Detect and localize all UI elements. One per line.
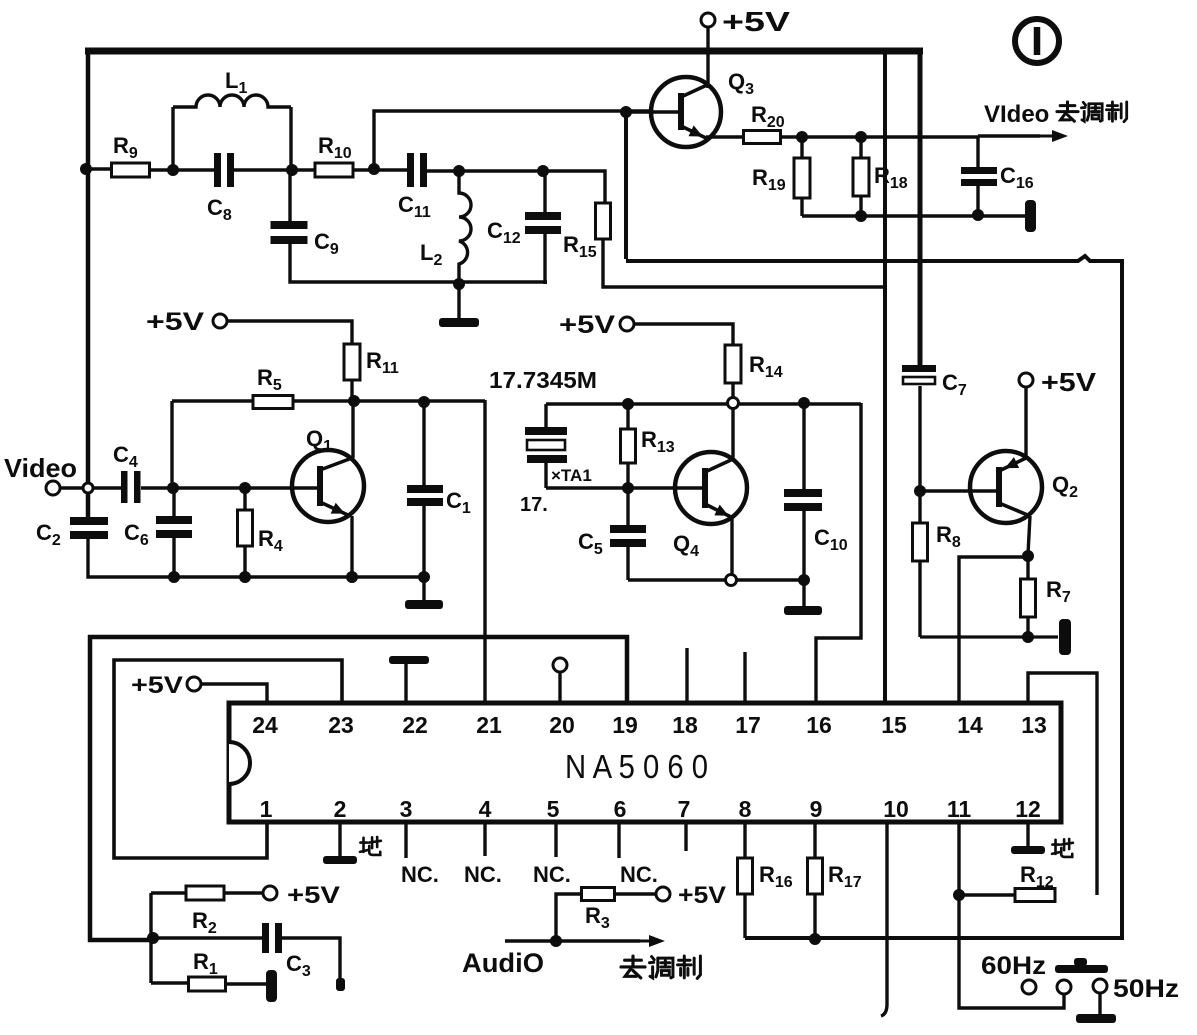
switch lever xyxy=(1055,965,1108,973)
node junction R4 top xyxy=(239,482,251,494)
svg-text:3: 3 xyxy=(400,796,413,822)
wire C11 to R15 corner xyxy=(427,171,605,204)
wire R19 lead xyxy=(800,137,803,159)
node junction frame/R1/R2/C3 xyxy=(147,932,159,944)
resistor R9 xyxy=(112,163,150,177)
circuit number marker (1) xyxy=(1015,19,1059,63)
wire C6 bottom xyxy=(172,538,175,577)
arrow video output xyxy=(1032,135,1056,138)
svg-text:VIdeo: VIdeo xyxy=(984,101,1049,128)
wire +5V to R11 xyxy=(228,321,352,345)
node Q4 emitter on rail xyxy=(726,575,737,586)
resistor R14 xyxy=(725,345,741,383)
wire pin15 long rail xyxy=(883,48,887,703)
terminal +5V R2 xyxy=(263,886,277,900)
svg-text:+5V: +5V xyxy=(1041,367,1097,397)
wire C7 to Q2 base xyxy=(918,386,921,524)
wire R4 bottom xyxy=(243,546,246,577)
wire pin23 to pin1 loop xyxy=(114,660,342,858)
svg-text:18: 18 xyxy=(672,712,698,738)
svg-text:23: 23 xyxy=(328,712,354,738)
character 去 (video out) xyxy=(1057,102,1078,121)
pin 18 stub xyxy=(685,648,688,703)
wire node rail to pin21 xyxy=(483,400,486,703)
crossover video/frame xyxy=(83,483,93,493)
node junction C6 bottom xyxy=(168,571,180,583)
wire C1 branch top xyxy=(422,402,425,486)
wire C3 left lead xyxy=(153,936,264,939)
transistor Q1 xyxy=(292,450,364,522)
svg-text:4: 4 xyxy=(479,796,492,822)
pin 22 top bar xyxy=(389,656,429,664)
wire R14 bottom xyxy=(731,383,734,398)
wire R10 to C11 xyxy=(353,168,408,171)
ground pin2 xyxy=(323,856,357,864)
terminal +5V top xyxy=(701,13,715,27)
wire pin14/pin11 rail crossing xyxy=(958,939,961,942)
wire C5 bottom xyxy=(626,547,629,580)
terminal +5V R14 xyxy=(620,317,634,331)
svg-text:17: 17 xyxy=(735,712,761,738)
node junction C12 top xyxy=(537,165,549,177)
node junction R9 left / frame xyxy=(80,163,92,175)
wire R7 bottom xyxy=(1026,617,1029,637)
terminal +5V pin24 xyxy=(187,677,201,691)
wire R1 left lead xyxy=(151,981,189,984)
wire R3 to +5V xyxy=(615,892,655,895)
pin 12 stub xyxy=(1026,822,1029,846)
svg-text:N A 5 0 6 0: N A 5 0 6 0 xyxy=(565,748,708,785)
pin 11 drop to switch xyxy=(959,822,1064,1008)
wire Q1 emitter drop xyxy=(350,516,353,577)
wire C8 to R10 xyxy=(234,168,315,171)
pin 5 stub xyxy=(554,822,557,857)
wire Q2 emitter drop xyxy=(1028,516,1030,554)
character 调 (audio out) xyxy=(650,957,673,978)
character 去 (audio out) xyxy=(621,956,645,978)
node junction R4 bottom xyxy=(239,571,251,583)
wire R11 to node xyxy=(350,380,353,401)
node junction R18 bottom xyxy=(855,210,867,222)
svg-text:+5V: +5V xyxy=(131,672,183,699)
wire Q4 collector riser xyxy=(731,408,734,458)
node junction L2 bottom xyxy=(453,278,465,290)
wire C9 to bottom rail xyxy=(290,244,547,282)
svg-text:7: 7 xyxy=(678,796,691,822)
wire +5V to Q3 collector xyxy=(706,28,709,88)
wire C10 branch xyxy=(802,403,805,490)
wire xtal bottom leg xyxy=(544,463,547,488)
crystal XTA1 xyxy=(525,427,567,435)
capacitor C8 xyxy=(214,153,221,187)
wire R17 bottom xyxy=(813,894,816,939)
resistor R2 xyxy=(186,886,224,900)
character 调 (video out) xyxy=(1081,102,1102,121)
ground under C1 xyxy=(405,600,443,609)
terminal +5V Q2 xyxy=(1019,373,1033,387)
pin 10 long stub xyxy=(881,822,887,1016)
wire Q1 collector riser xyxy=(351,402,354,458)
arrow audio output xyxy=(629,940,653,943)
ground under 50Hz xyxy=(1076,1014,1116,1023)
svg-text:NC.: NC. xyxy=(620,862,658,887)
node junction L1 left / C8 left xyxy=(167,164,179,176)
stub end blob C3 xyxy=(336,978,345,991)
node junction Q2 emitter xyxy=(1022,550,1034,562)
node junction C1 top xyxy=(418,396,430,408)
node junction C4/C6/R5 xyxy=(167,482,179,494)
wire R9 to C8 node xyxy=(149,168,215,171)
pin 13 route to R12 xyxy=(1028,673,1097,895)
wire C1 bottom xyxy=(422,506,425,600)
svg-text:5: 5 xyxy=(547,796,560,822)
wire Q3 base riser xyxy=(374,111,650,169)
svg-text:60Hz: 60Hz xyxy=(981,952,1046,980)
wire R19 bottom xyxy=(800,198,803,216)
pin 20 stub xyxy=(558,672,561,703)
wire Q3 emitter to R20 xyxy=(706,135,744,138)
inductor L2 xyxy=(459,171,471,284)
svg-text:17.: 17. xyxy=(520,494,548,516)
wire xtal node rail xyxy=(546,402,861,405)
capacitor C3 xyxy=(262,923,269,953)
wire IC section left rail xyxy=(90,635,150,940)
wire L1 right riser xyxy=(289,107,292,170)
node junction Q3 base xyxy=(620,106,632,118)
capacitor C2 xyxy=(70,517,108,525)
character 制 (audio out) xyxy=(678,956,701,978)
ground right of R7 xyxy=(1059,619,1071,655)
wire R15 bottom to pin15 rail xyxy=(603,239,884,287)
svg-text:14: 14 xyxy=(957,712,983,738)
resistor R20 xyxy=(744,131,781,144)
capacitor C12 xyxy=(525,212,561,220)
wire R16 bottom xyxy=(743,894,746,938)
node junction R19 top xyxy=(796,131,808,143)
svg-text:50Hz: 50Hz xyxy=(1113,975,1179,1003)
wire R2/R1 left riser xyxy=(149,893,152,983)
ground under L2 xyxy=(439,318,479,327)
wire Q4 base rail xyxy=(546,486,702,489)
wire 50Hz to ground xyxy=(1098,993,1101,1014)
wire R2 to +5V xyxy=(224,891,262,894)
capacitor C1 xyxy=(407,485,443,493)
pin 22 stub xyxy=(404,664,407,703)
wire C12 branch xyxy=(543,171,546,213)
inductor L1 xyxy=(173,95,291,107)
resistor R16 xyxy=(738,858,753,894)
ground right of C16 xyxy=(1025,200,1036,232)
svg-text:21: 21 xyxy=(476,712,502,738)
node junction R11 bottom xyxy=(348,395,360,407)
wire C16 branch xyxy=(976,136,979,167)
svg-text:AudiO: AudiO xyxy=(462,948,544,978)
pin 20 terminal xyxy=(553,658,567,672)
node junction C1 / gnd rail xyxy=(418,571,430,583)
pin 7 stub xyxy=(684,822,687,851)
svg-text:6: 6 xyxy=(614,796,627,822)
capacitor C16 xyxy=(961,167,997,174)
resistor R8 xyxy=(913,523,928,561)
node junction audio/R3 xyxy=(550,935,562,947)
wire R13 lead xyxy=(626,404,629,430)
resistor R13 xyxy=(621,429,636,463)
wire +5V to R14 xyxy=(635,324,733,345)
wire audio line xyxy=(505,939,640,942)
node junction Q2 base xyxy=(914,485,926,497)
wire Q4 emitter drop xyxy=(730,518,733,580)
svg-text:12: 12 xyxy=(1015,796,1041,822)
resistor R3 xyxy=(582,888,615,901)
resistor R7 xyxy=(1021,579,1036,617)
svg-text:+5V: +5V xyxy=(146,308,204,336)
wire R18 lead xyxy=(859,137,862,158)
svg-text:9: 9 xyxy=(810,796,823,822)
wire R12 left lead xyxy=(959,893,1014,896)
svg-text:+5V: +5V xyxy=(722,6,790,37)
node junction C10 top xyxy=(798,397,810,409)
wire C9 branch xyxy=(288,170,291,221)
node junction C8 right / C9 top xyxy=(286,164,298,176)
wire +5V to pin24 xyxy=(201,684,267,703)
svg-text:24: 24 xyxy=(252,712,278,738)
character 地 (pin2) xyxy=(360,837,381,855)
capacitor C11 xyxy=(407,153,414,187)
transistor Q4 xyxy=(675,452,747,524)
wire node to pin16 route xyxy=(816,403,861,703)
terminal Video input xyxy=(46,481,60,495)
svg-text:+5V: +5V xyxy=(559,311,615,339)
terminal +5V R3 xyxy=(656,887,670,901)
wire IC section top rail xyxy=(88,637,627,703)
resistor R11 xyxy=(344,344,360,380)
wire L1 left riser xyxy=(171,107,174,170)
svg-text:15: 15 xyxy=(881,712,907,738)
svg-text:19: 19 xyxy=(612,712,638,738)
pin 17 stub xyxy=(743,652,746,703)
wire R7 lead xyxy=(1026,556,1029,580)
svg-text:Video: Video xyxy=(4,453,77,483)
node junction R10 right / Q3 base branch xyxy=(368,163,380,175)
switch pole 60Hz xyxy=(1022,980,1036,994)
wire +5V to Q2 collector xyxy=(1024,388,1027,458)
svg-text:NC.: NC. xyxy=(464,862,502,887)
wire R4 lead xyxy=(243,488,246,510)
transistor Q3 xyxy=(651,77,721,147)
wire C4 to base node xyxy=(141,486,317,489)
svg-text:11: 11 xyxy=(947,796,972,822)
wire Q2 base rail xyxy=(920,489,996,492)
node junction xtal/R13/C5/base xyxy=(622,482,634,494)
pin 4 stub xyxy=(483,822,486,856)
wire C10 ground stem xyxy=(802,580,805,606)
svg-text:10: 10 xyxy=(883,796,909,822)
svg-text:17.7345M: 17.7345M xyxy=(489,367,597,393)
wire emitter to pin14 route xyxy=(959,557,1028,703)
resistor R17 xyxy=(808,858,823,894)
pin 1 already in loop / pin2 stub xyxy=(338,822,341,856)
character 地 (pin12) xyxy=(1052,839,1073,857)
node junction R13 top xyxy=(622,398,634,410)
resistor R15 xyxy=(596,203,611,239)
capacitor C7 xyxy=(902,365,936,372)
wire R8 bottom xyxy=(918,561,921,637)
node junction Q1 emitter bottom xyxy=(346,571,358,583)
wire C6 branch xyxy=(172,488,175,517)
svg-text:NC.: NC. xyxy=(401,862,439,887)
wire video out xyxy=(978,134,1040,137)
node junction C10 bottom xyxy=(798,574,810,586)
node junction R18 top xyxy=(855,131,867,143)
character 制 (video out) xyxy=(1106,102,1126,122)
svg-text:16: 16 xyxy=(806,712,832,738)
svg-text:+5V: +5V xyxy=(287,882,340,909)
wire Q3 base drop xyxy=(624,112,628,259)
wire gnd rail R19/R18/C16 xyxy=(802,214,1025,217)
resistor R4 xyxy=(238,510,253,546)
wire C3 right route xyxy=(282,938,340,982)
wire C5 branch xyxy=(626,488,629,526)
node junction R17 bottom rail xyxy=(809,933,821,945)
node junction C16 bottom xyxy=(972,209,984,221)
capacitor C9 xyxy=(271,221,308,229)
wire R3 riser xyxy=(556,894,582,941)
wire feedback rail to R16/R17 xyxy=(626,256,1122,938)
wire video input lead xyxy=(60,486,121,489)
wire R20 to video out xyxy=(781,135,978,138)
svg-text:22: 22 xyxy=(402,712,428,738)
wire C2 bottom to gnd rail xyxy=(88,539,424,577)
capacitor C4 xyxy=(121,471,128,503)
node junction R12 left xyxy=(953,889,965,901)
wire L2 ground stem xyxy=(457,284,460,318)
node junction R7 bottom xyxy=(1022,631,1034,643)
ground right of R1 xyxy=(266,970,277,1002)
pin 3 stub xyxy=(404,822,407,858)
wire C10 bottom xyxy=(802,511,805,580)
pin 8 lead xyxy=(743,822,746,859)
resistor R10 xyxy=(315,163,353,177)
wire top frame rail xyxy=(85,48,923,55)
wire C12 to bottom rail xyxy=(543,233,546,284)
pin 6 stub xyxy=(617,822,620,858)
wire R1 right lead xyxy=(226,982,266,985)
svg-text:×TA1: ×TA1 xyxy=(551,466,592,485)
wire Q4 bottom rail xyxy=(628,578,807,581)
svg-text:NC.: NC. xyxy=(533,862,571,887)
wire node to C4 junction drop xyxy=(170,401,173,488)
switch pole 50Hz xyxy=(1093,979,1107,993)
wire R9 left lead xyxy=(86,167,112,170)
svg-text:1: 1 xyxy=(260,796,273,822)
resistor R1 xyxy=(189,977,226,991)
capacitor C10 xyxy=(784,489,822,497)
ground under C10 xyxy=(784,606,822,615)
svg-text:2: 2 xyxy=(334,796,347,822)
wire C16 bottom xyxy=(976,186,979,215)
terminal +5V R11 xyxy=(213,314,227,328)
wire xtal left leg xyxy=(544,404,547,429)
svg-text:8: 8 xyxy=(739,796,752,822)
switch common xyxy=(1057,980,1071,994)
wire R8/R7 ground rail xyxy=(920,635,1058,638)
wire Q1 collector node rail xyxy=(172,399,485,402)
wire R18 bottom xyxy=(859,196,862,216)
wire R13 bottom xyxy=(626,463,629,488)
capacitor C6 xyxy=(156,516,192,524)
wire right frame drop to C7 xyxy=(918,48,923,365)
resistor R18 xyxy=(853,158,869,196)
svg-text:13: 13 xyxy=(1021,712,1047,738)
pin 9 lead xyxy=(813,822,816,859)
resistor R5 xyxy=(253,396,293,409)
transistor Q2 xyxy=(970,451,1042,523)
ground pin12 xyxy=(1011,846,1045,854)
resistor R19 xyxy=(794,158,810,198)
node junction L2 top xyxy=(453,165,465,177)
wire Q3 base lead xyxy=(626,110,678,113)
IC U1 NA5060 body xyxy=(229,703,1061,822)
node R14 bottom / collector xyxy=(728,398,739,409)
svg-text:20: 20 xyxy=(549,712,575,738)
capacitor C5 xyxy=(610,525,646,533)
svg-text:+5V: +5V xyxy=(678,882,726,909)
wire left frame rail xyxy=(86,48,91,518)
resistor R12 xyxy=(1015,889,1055,902)
wire R2 left lead xyxy=(151,891,186,894)
